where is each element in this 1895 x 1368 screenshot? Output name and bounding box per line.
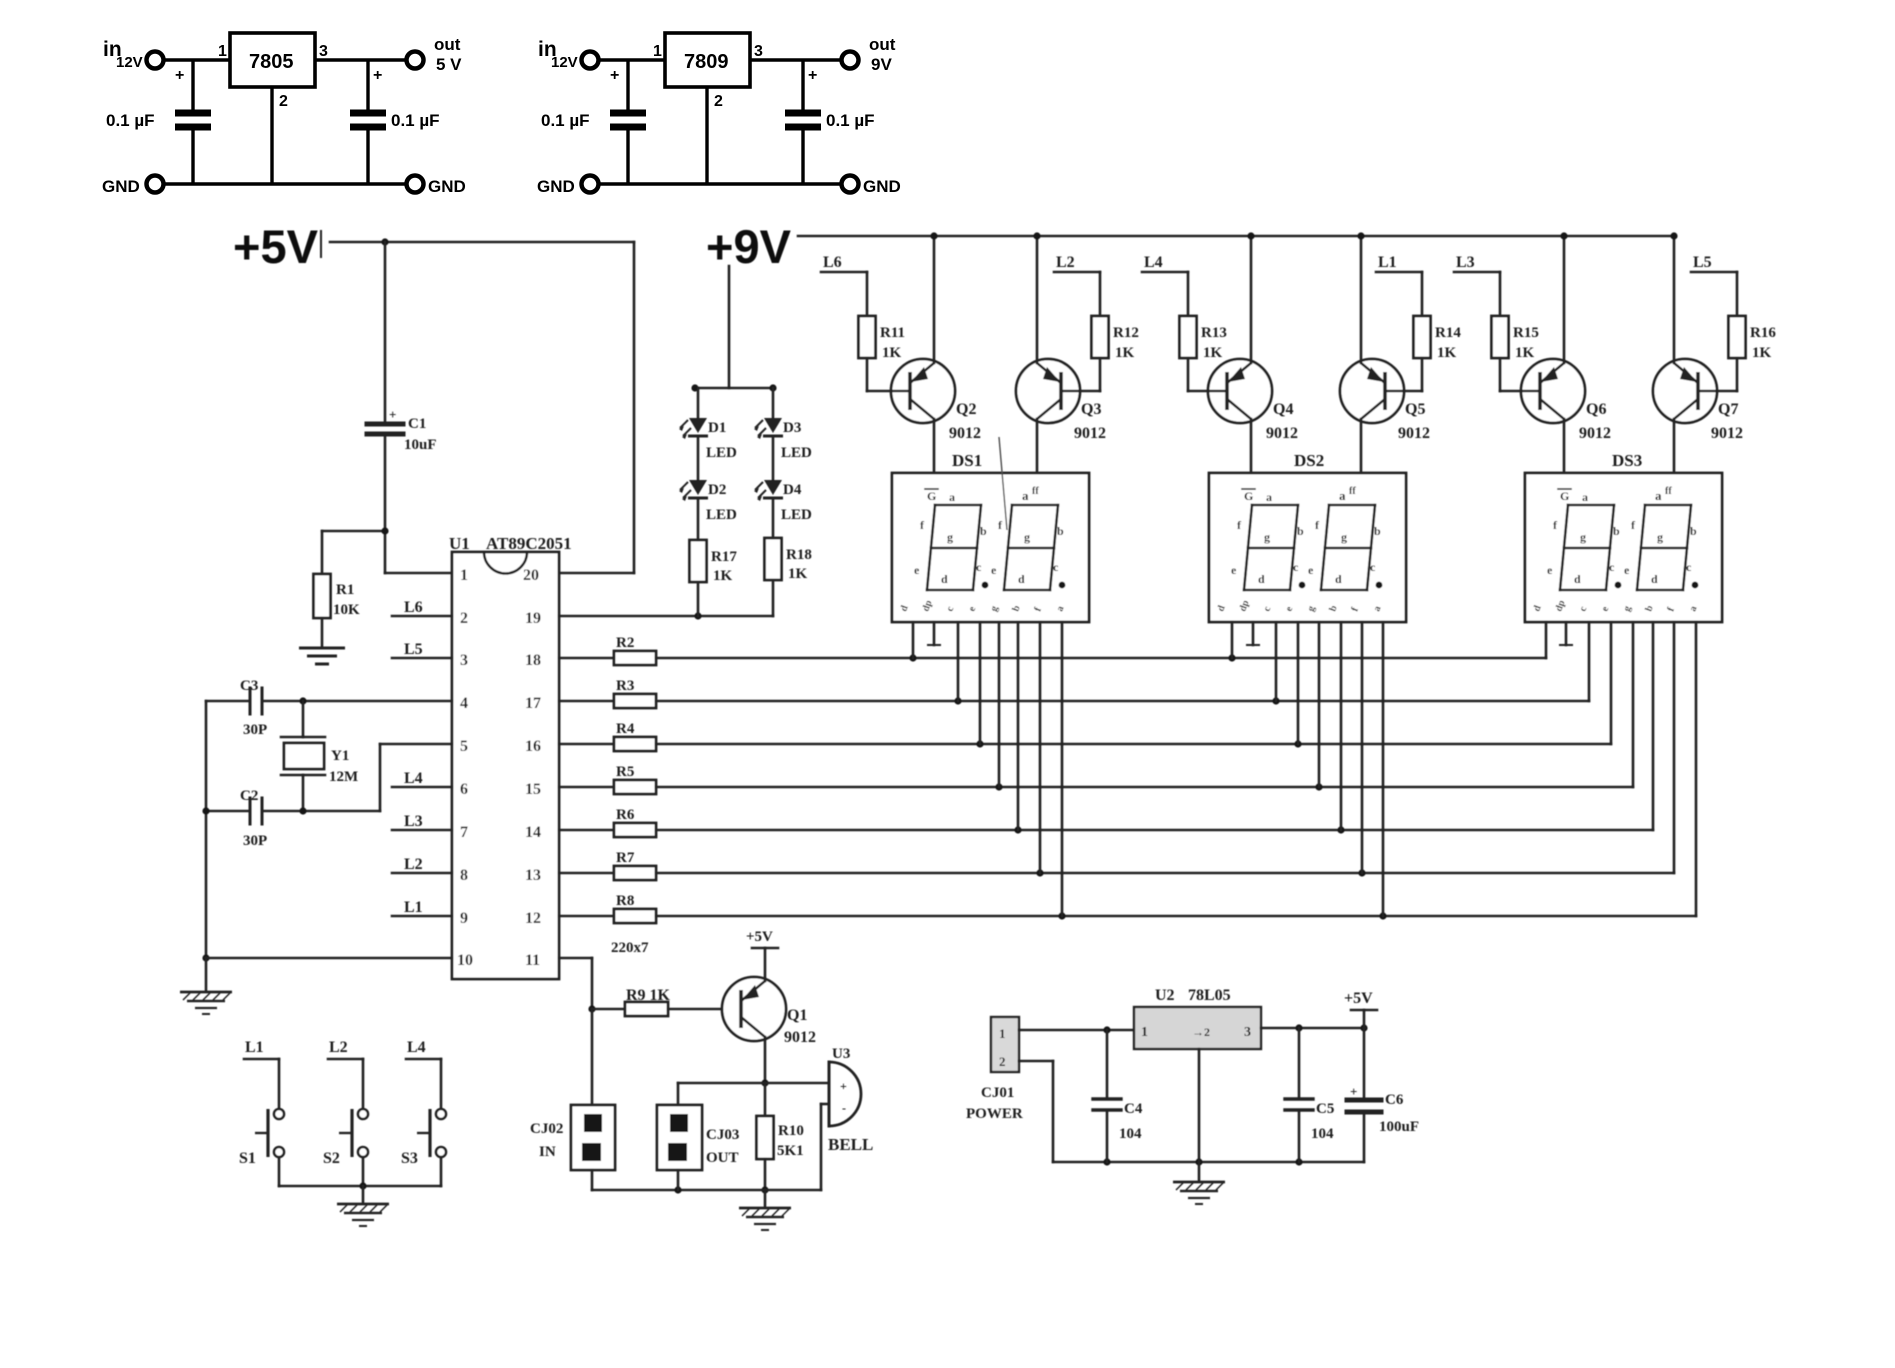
svg-text:+5V: +5V	[746, 929, 773, 945]
svg-text:Q1: Q1	[787, 1007, 807, 1024]
svg-text:12V: 12V	[116, 54, 143, 71]
svg-text:ff: ff	[1665, 486, 1672, 497]
wire pin 4 to crystal net	[262, 700, 452, 703]
svg-text:+: +	[610, 67, 619, 84]
node L4 stub	[1142, 271, 1188, 274]
transistor Q7 9012	[1653, 359, 1717, 423]
resistor R12 1K	[1099, 272, 1102, 316]
svg-text:L1: L1	[245, 1039, 264, 1056]
voltage regulator 7809 sub-circuit	[537, 33, 901, 196]
svg-text:g: g	[1657, 530, 1663, 544]
transistor Q5 9012	[1340, 359, 1404, 423]
wire DS1 segment pins	[912, 622, 915, 658]
node L4 stub at pin	[392, 786, 452, 789]
svg-text:D1: D1	[708, 420, 726, 436]
7-segment digit left of DS1	[935, 504, 981, 507]
svg-text:11: 11	[525, 952, 540, 969]
svg-text:2: 2	[279, 93, 288, 110]
svg-text:12: 12	[525, 910, 541, 927]
wire DS3 segment pins	[1545, 622, 1548, 658]
svg-text:1: 1	[653, 43, 662, 60]
svg-text:10: 10	[457, 952, 473, 969]
svg-text:9: 9	[460, 910, 468, 927]
svg-text:12V: 12V	[551, 54, 578, 71]
svg-text:L6: L6	[404, 599, 423, 616]
wire emitter of Q7 to +9V	[1673, 236, 1676, 363]
ground rail wire	[599, 182, 841, 185]
svg-text:CJ02: CJ02	[530, 1121, 563, 1137]
capacitor C5 104	[1298, 1028, 1301, 1097]
svg-text:g: g	[1024, 530, 1030, 544]
svg-text:10K: 10K	[333, 602, 360, 618]
output capacitor 0.1uF	[366, 60, 369, 110]
svg-text:L5: L5	[1693, 254, 1712, 271]
regulator 7805 body	[230, 33, 315, 87]
svg-text:0.1 µF: 0.1 µF	[106, 111, 155, 130]
svg-text:e: e	[1624, 563, 1630, 577]
svg-text:a: a	[1582, 490, 1588, 504]
display DS1 dual 7-segment	[892, 473, 1089, 622]
resistor R11 1K	[866, 272, 869, 316]
svg-text:R8: R8	[616, 893, 634, 909]
svg-text:ff: ff	[1349, 486, 1356, 497]
svg-text:9012: 9012	[1074, 425, 1106, 442]
svg-text:1: 1	[218, 43, 227, 60]
svg-text:→2: →2	[1192, 1025, 1210, 1039]
svg-text:3: 3	[754, 43, 763, 60]
svg-text:17: 17	[525, 695, 541, 712]
svg-text:L3: L3	[1456, 254, 1475, 271]
svg-text:C6: C6	[1385, 1092, 1404, 1108]
resistor R9 1K	[625, 1002, 668, 1016]
svg-text:c: c	[1293, 560, 1299, 574]
svg-text:C2: C2	[240, 788, 258, 804]
svg-text:L5: L5	[404, 641, 423, 658]
wire collector Q1	[764, 1037, 767, 1083]
svg-text:GND: GND	[537, 177, 575, 196]
resistor R17 1K	[690, 540, 707, 582]
svg-text:9V: 9V	[871, 55, 892, 74]
svg-text:S3: S3	[401, 1150, 418, 1167]
svg-text:b: b	[980, 524, 987, 538]
svg-text:LED: LED	[706, 507, 737, 523]
svg-text:104: 104	[1311, 1126, 1334, 1142]
node L5 stub	[1691, 271, 1737, 274]
svg-text:9012: 9012	[1398, 425, 1430, 442]
display DS3 dual 7-segment	[1525, 473, 1722, 622]
svg-text:R2: R2	[616, 635, 634, 651]
wire segment row R3	[656, 700, 1589, 703]
connector CJ03 OUT	[657, 1105, 702, 1170]
svg-text:e: e	[991, 563, 997, 577]
svg-text:g: g	[947, 530, 953, 544]
svg-text:78L05: 78L05	[1188, 987, 1231, 1004]
svg-text:9012: 9012	[1711, 425, 1743, 442]
wire collector of Q6 to display	[1563, 419, 1566, 473]
wire CJ01 pin2 to ground rail	[1019, 1060, 1053, 1063]
svg-text:R3: R3	[616, 678, 634, 694]
svg-text:C5: C5	[1316, 1101, 1334, 1117]
svg-text:1K: 1K	[882, 345, 902, 361]
svg-text:R10: R10	[778, 1123, 804, 1139]
svg-text:L6: L6	[823, 254, 842, 271]
svg-text:9012: 9012	[784, 1029, 816, 1046]
svg-text:15: 15	[525, 781, 541, 798]
svg-text:5: 5	[460, 738, 468, 755]
svg-text:4: 4	[460, 695, 468, 712]
wire pin 5 to crystal net	[380, 743, 452, 746]
svg-text:g: g	[1264, 530, 1270, 544]
svg-text:L2: L2	[404, 856, 423, 873]
pin 2 wire to ground	[270, 87, 273, 184]
wire U2 pin2 ground	[1198, 1049, 1201, 1162]
GND terminal right	[407, 176, 424, 193]
svg-text:1K: 1K	[1437, 345, 1457, 361]
svg-text:g: g	[1580, 530, 1586, 544]
op-amp U1 AT89C2051 microcontroller	[452, 552, 559, 979]
wire +9V drop to LED anodes	[728, 266, 731, 388]
svg-text:13: 13	[525, 867, 541, 884]
wire collector of Q7 to display	[1673, 419, 1676, 473]
node L1 stub at pin	[392, 915, 452, 918]
svg-text:R7: R7	[616, 850, 635, 866]
7-segment digit right of DS3	[1645, 504, 1691, 507]
svg-text:9012: 9012	[949, 425, 981, 442]
ground rail wire	[164, 182, 406, 185]
svg-text:a: a	[949, 490, 955, 504]
svg-text:14: 14	[525, 824, 541, 841]
svg-text:1K: 1K	[713, 568, 733, 584]
transistor Q6 9012	[1521, 359, 1585, 423]
svg-text:R1: R1	[336, 582, 354, 598]
svg-text:L2: L2	[329, 1039, 348, 1056]
op-amp U2 78L05 regulator	[1134, 1007, 1261, 1049]
resistor R14 1K	[1421, 272, 1424, 316]
svg-text:L4: L4	[407, 1039, 426, 1056]
svg-text:20: 20	[523, 567, 539, 584]
ground bottom-left	[180, 992, 232, 1014]
svg-text:10uF: 10uF	[404, 437, 437, 453]
svg-text:9012: 9012	[1579, 425, 1611, 442]
svg-text:d: d	[1258, 572, 1265, 586]
capacitor C4 104	[1106, 1030, 1109, 1097]
wire emitter of Q6 to +9V	[1563, 236, 1566, 363]
svg-text:1: 1	[460, 567, 468, 584]
svg-text:2: 2	[999, 1054, 1006, 1069]
7-segment digit left of DS2	[1252, 504, 1298, 507]
node L6 stub at pin	[392, 615, 452, 618]
node L5 stub at pin	[392, 657, 452, 660]
svg-text:Q3: Q3	[1081, 401, 1101, 418]
svg-text:+: +	[175, 67, 184, 84]
svg-text:GND: GND	[428, 177, 466, 196]
wire segment row R7	[656, 872, 1674, 875]
wire base of Q7	[1736, 358, 1739, 391]
svg-text:G: G	[1560, 489, 1569, 503]
7-segment digit left of DS3	[1568, 504, 1614, 507]
node L3 stub	[1454, 271, 1500, 274]
wire collector of Q3 to display	[1036, 419, 1039, 473]
svg-text:2: 2	[714, 93, 723, 110]
svg-text:S1: S1	[239, 1150, 256, 1167]
wire DS2 segment pins	[1231, 622, 1234, 658]
svg-text:BELL: BELL	[828, 1135, 873, 1154]
svg-text:c: c	[1370, 560, 1376, 574]
svg-text:+: +	[1350, 1084, 1357, 1099]
svg-text:CJ01: CJ01	[981, 1085, 1014, 1101]
svg-text:d: d	[1018, 572, 1025, 586]
svg-text:a: a	[1022, 488, 1029, 503]
svg-text:1K: 1K	[1203, 345, 1223, 361]
wire pin 10 to ground rail	[206, 957, 452, 960]
svg-text:R4: R4	[616, 721, 635, 737]
wire +5V rail	[330, 241, 634, 244]
svg-text:a: a	[1266, 490, 1272, 504]
svg-text:+5V: +5V	[233, 220, 319, 273]
svg-text:b: b	[1613, 524, 1620, 538]
svg-text:R18: R18	[786, 547, 812, 563]
svg-text:R13: R13	[1201, 325, 1227, 341]
svg-text:C4: C4	[1124, 1101, 1143, 1117]
svg-text:OUT: OUT	[706, 1150, 739, 1166]
wire emitter of Q4 to +9V	[1250, 236, 1253, 363]
svg-text:Q6: Q6	[1586, 401, 1606, 418]
svg-text:CJ03: CJ03	[706, 1127, 739, 1143]
svg-text:5K1: 5K1	[777, 1143, 804, 1159]
svg-text:L4: L4	[404, 770, 423, 787]
resistor R10 5K1	[764, 1083, 767, 1116]
wire base of Q6	[1499, 358, 1502, 391]
svg-text:GND: GND	[863, 177, 901, 196]
capacitor C2 30P	[249, 798, 252, 824]
svg-text:7809: 7809	[684, 51, 729, 73]
ground below switches	[337, 1204, 389, 1226]
resistor R18 1K	[765, 538, 782, 580]
svg-text:+: +	[808, 67, 817, 84]
svg-text:3: 3	[460, 652, 468, 669]
svg-text:Y1: Y1	[331, 748, 349, 764]
LED D3	[754, 418, 783, 439]
wire pin 19 to LED resistors	[559, 615, 773, 618]
svg-text:c: c	[976, 560, 982, 574]
svg-text:e: e	[1231, 563, 1237, 577]
svg-text:7: 7	[460, 824, 468, 841]
svg-text:1K: 1K	[1752, 345, 1772, 361]
switch S1	[278, 1059, 281, 1108]
svg-text:out: out	[869, 35, 896, 54]
svg-text:R14: R14	[1435, 325, 1461, 341]
node L2 stub	[1054, 271, 1100, 274]
svg-text:Q4: Q4	[1273, 401, 1293, 418]
svg-text:100uF: 100uF	[1379, 1119, 1419, 1135]
wire collector of Q5 to display	[1360, 419, 1363, 473]
wire regulator to out	[315, 58, 406, 61]
svg-text:R16: R16	[1750, 325, 1776, 341]
svg-text:U3: U3	[832, 1046, 850, 1062]
wire collector of Q2 to display	[933, 419, 936, 473]
svg-text:1K: 1K	[1115, 345, 1135, 361]
wire switch common rail	[279, 1185, 441, 1188]
transistor Q1 9012	[722, 977, 786, 1041]
svg-text:1K: 1K	[788, 566, 808, 582]
svg-text:Q5: Q5	[1405, 401, 1425, 418]
svg-text:G: G	[927, 489, 936, 503]
svg-text:Q2: Q2	[956, 401, 976, 418]
wire base of Q3	[1099, 358, 1102, 391]
svg-text:ff: ff	[1032, 486, 1039, 497]
svg-text:D2: D2	[708, 482, 726, 498]
resistor R6	[559, 829, 614, 832]
svg-text:D3: D3	[783, 420, 801, 436]
resistor R4	[559, 743, 614, 746]
svg-text:e: e	[1308, 563, 1314, 577]
svg-text:LED: LED	[781, 507, 812, 523]
output capacitor 0.1uF	[801, 60, 804, 110]
wire segment row R2	[656, 657, 1546, 660]
svg-text:LED: LED	[781, 445, 812, 461]
svg-text:c: c	[1053, 560, 1059, 574]
svg-text:R15: R15	[1513, 325, 1539, 341]
resistor R15 1K	[1499, 272, 1502, 316]
svg-text:+5V: +5V	[1344, 990, 1373, 1007]
ground below R1	[299, 648, 345, 664]
svg-text:L1: L1	[404, 899, 423, 916]
wire segment row R6	[656, 829, 1653, 832]
svg-text:e: e	[914, 563, 920, 577]
svg-text:IN: IN	[539, 1144, 556, 1160]
wire base of Q4	[1187, 358, 1190, 391]
svg-text:a: a	[1655, 488, 1662, 503]
7-segment digit right of DS2	[1329, 504, 1375, 507]
svg-text:R5: R5	[616, 764, 634, 780]
GND terminal left	[582, 176, 599, 193]
svg-text:e: e	[1547, 563, 1553, 577]
svg-text:d: d	[1651, 572, 1658, 586]
svg-text:U1: U1	[449, 534, 470, 553]
svg-text:19: 19	[525, 610, 541, 627]
wire emitter of Q3 to +9V	[1036, 236, 1039, 363]
svg-text:L4: L4	[1144, 254, 1163, 271]
node L1 stub	[1376, 271, 1422, 274]
transistor Q2 9012	[891, 359, 955, 423]
svg-text:C1: C1	[408, 416, 426, 432]
GND terminal left	[147, 176, 164, 193]
LED D4	[754, 480, 783, 501]
voltage regulator 7805 sub-circuit	[102, 33, 466, 196]
svg-text:b: b	[1057, 524, 1064, 538]
wire in to regulator	[599, 58, 665, 61]
wire in to regulator	[164, 58, 230, 61]
svg-text:1: 1	[1141, 1025, 1148, 1040]
wire +5V down to pin 20	[633, 242, 636, 573]
svg-text:5 V: 5 V	[436, 55, 462, 74]
wire emitter of Q5 to +9V	[1360, 236, 1363, 363]
wire regulator to out	[750, 58, 841, 61]
svg-text:9012: 9012	[1266, 425, 1298, 442]
svg-text:c: c	[1609, 560, 1615, 574]
svg-text:R17: R17	[711, 549, 737, 565]
resistor R5	[559, 786, 614, 789]
svg-text:b: b	[1690, 524, 1697, 538]
svg-text:3: 3	[319, 43, 328, 60]
resistor R2	[559, 657, 614, 660]
svg-text:AT89C2051: AT89C2051	[486, 534, 572, 553]
svg-text:+: +	[373, 67, 382, 84]
wire segment row R4	[656, 743, 1611, 746]
wire	[999, 437, 1007, 530]
svg-text:DS2: DS2	[1294, 451, 1324, 470]
wire emitter of Q2 to +9V	[933, 236, 936, 363]
input capacitor 0.1uF	[626, 60, 629, 110]
connector CJ01 POWER	[991, 1017, 1019, 1072]
wire +9V bus	[798, 235, 1674, 238]
svg-text:G: G	[1244, 489, 1253, 503]
svg-text:R12: R12	[1113, 325, 1139, 341]
svg-text:d: d	[1335, 572, 1342, 586]
svg-text:a: a	[1339, 488, 1346, 503]
svg-text:L1: L1	[1378, 254, 1397, 271]
svg-text:GND: GND	[102, 177, 140, 196]
svg-text:L3: L3	[404, 813, 423, 830]
resistor R13 1K	[1187, 272, 1190, 316]
node L3 stub at pin	[392, 829, 452, 832]
svg-text:R6: R6	[616, 807, 635, 823]
resistor R3	[559, 700, 614, 703]
svg-text:3: 3	[1244, 1025, 1251, 1040]
svg-text:R11: R11	[880, 325, 905, 341]
node L2 stub at pin	[392, 872, 452, 875]
svg-text:D4: D4	[783, 482, 802, 498]
svg-text:0.1 µF: 0.1 µF	[541, 111, 590, 130]
svg-text:104: 104	[1119, 1126, 1142, 1142]
wire pin 11 to R9	[559, 957, 592, 960]
terminal out 9V	[842, 52, 859, 69]
svg-text:S2: S2	[323, 1150, 340, 1167]
7-segment digit right of DS1	[1012, 504, 1058, 507]
ground below R10	[764, 1190, 767, 1206]
svg-text:b: b	[1374, 524, 1381, 538]
display DS2 dual 7-segment	[1209, 473, 1406, 622]
svg-text:12M: 12M	[329, 769, 358, 785]
svg-text:out: out	[434, 35, 461, 54]
LED D2	[679, 480, 708, 501]
svg-text:+: +	[840, 1079, 847, 1093]
svg-text:POWER: POWER	[966, 1106, 1023, 1122]
wire RST node to pin 1	[385, 572, 452, 575]
resistor R16 1K	[1736, 272, 1739, 316]
svg-text:+9V: +9V	[706, 220, 792, 273]
wire collector of Q4 to display	[1250, 419, 1253, 473]
svg-text:+: +	[389, 407, 396, 422]
capacitor C3 30P	[249, 688, 252, 714]
svg-text:Q7: Q7	[1718, 401, 1738, 418]
capacitor C6 100uF	[1363, 1028, 1366, 1100]
svg-text:c: c	[1686, 560, 1692, 574]
resistor R1 10K	[314, 574, 331, 618]
node L6 stub	[821, 271, 867, 274]
svg-text:1: 1	[999, 1026, 1006, 1041]
LED D1	[679, 418, 708, 439]
crystal Y1 12M	[299, 697, 306, 704]
regulator 7809 body	[665, 33, 750, 87]
resistor R8	[559, 915, 614, 918]
svg-text:DS3: DS3	[1612, 451, 1642, 470]
svg-text:d: d	[1574, 572, 1581, 586]
svg-text:30P: 30P	[243, 722, 267, 738]
svg-text:220x7: 220x7	[611, 940, 649, 956]
wire U2 output to +5V	[1261, 1027, 1364, 1030]
svg-text:7805: 7805	[249, 51, 294, 73]
